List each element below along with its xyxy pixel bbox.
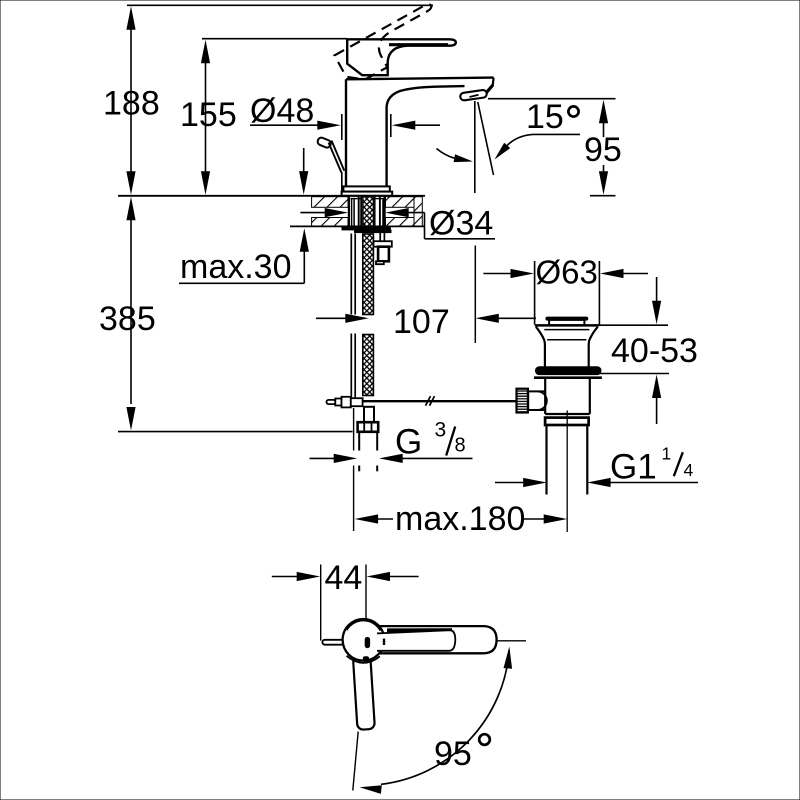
max.180 left extension line: [353, 408, 355, 531]
faucet deck top: [346, 78, 494, 93]
drain body below o-ring: [545, 379, 590, 414]
top view: handle cap circle: [343, 619, 385, 661]
top view: center marks: [363, 637, 384, 661]
188 dimension (overall height): [103, 5, 433, 195]
svg-text:188: 188: [103, 85, 160, 123]
pop-up waste plug lid: [546, 317, 588, 325]
svg-text:Ø63: Ø63: [536, 254, 598, 291]
handle (solid, closed position): [347, 39, 456, 75]
G1 1/4 drain thread dimension: [495, 444, 698, 488]
drain centerline: [566, 411, 568, 533]
max.30 counter thickness dimension: [179, 148, 309, 286]
svg-text:385: 385: [99, 300, 156, 338]
mounting washer and locknut: [342, 227, 391, 233]
Diameter 48 dimension label: [250, 92, 440, 192]
svg-text:3: 3: [435, 419, 447, 442]
flexible hose (thin pair): [351, 234, 355, 399]
base flange (escutcheon): [342, 186, 393, 195]
rod clamp fitting at faucet end: [327, 397, 363, 408]
385 dimension (height below counter): [99, 197, 353, 432]
Diameter 34 hole dimension: [300, 205, 495, 243]
svg-text:107: 107: [393, 303, 450, 341]
svg-text:40-53: 40-53: [611, 332, 698, 370]
drain flange (trumpet): [535, 325, 599, 367]
top view: lever top-face inner contour: [377, 628, 455, 651]
svg-text:G1: G1: [610, 448, 657, 487]
handle (dashed, raised position): [334, 3, 446, 87]
svg-text:Ø34: Ø34: [429, 205, 493, 243]
drain tailpipe with collar: [545, 418, 589, 495]
top view: lever pointing down (open pos.): [353, 655, 375, 729]
aerator outlet: [460, 90, 487, 101]
15 degree spray angle annotation: [437, 98, 581, 162]
horizontal pop-up rod: [353, 396, 517, 406]
O-ring seal (black): [534, 367, 602, 378]
hose connector tube: [359, 432, 377, 472]
svg-text:155: 155: [180, 96, 237, 134]
pop-up waste pull rod knob: [317, 137, 345, 173]
svg-text:max.30: max.30: [180, 248, 292, 286]
44 dimension (top view): [272, 559, 419, 641]
95 degree swivel arc: [360, 647, 513, 794]
155 dimension (spout height ref to handle top): [180, 39, 347, 195]
max.180 dimension: [355, 500, 568, 538]
svg-text:1: 1: [662, 444, 672, 464]
top view: inner cap arcs: [347, 621, 381, 663]
lever axis reference lines: [353, 641, 526, 791]
svg-text:max.180: max.180: [395, 500, 525, 538]
40-53 clamping range dimension: [598, 277, 698, 424]
water stream lines (15 deg): [475, 101, 494, 193]
95 dimension (spout outlet height): [488, 99, 622, 196]
svg-text:8: 8: [455, 435, 466, 457]
top view: lever bar (horizontal pos.): [370, 626, 497, 653]
faucet body / spout outline: [346, 79, 465, 191]
Diameter 63 drain flange dimension: [483, 254, 648, 325]
G 3/8 hex nut: [358, 422, 379, 432]
107 dimension (spout projection): [316, 246, 536, 344]
svg-text:15: 15: [526, 98, 564, 136]
hose connector stub below fitting: [364, 407, 374, 422]
svg-text:4: 4: [684, 460, 694, 480]
svg-text:95: 95: [434, 735, 472, 773]
G 3/8 thread dimension: [310, 419, 473, 464]
svg-text:44: 44: [325, 559, 363, 597]
knurled adjustment knob and rod joint: [517, 389, 547, 413]
pop-up rod holder bracket on stud: [374, 233, 392, 265]
svg-text:Ø48: Ø48: [250, 92, 314, 130]
threaded shank and hole internals: [349, 197, 385, 227]
threaded mounting stud (cross-hatched): [363, 234, 374, 396]
svg-text:G: G: [395, 423, 422, 462]
top view: set screw pin at left: [322, 640, 344, 645]
svg-text:95: 95: [584, 131, 622, 169]
